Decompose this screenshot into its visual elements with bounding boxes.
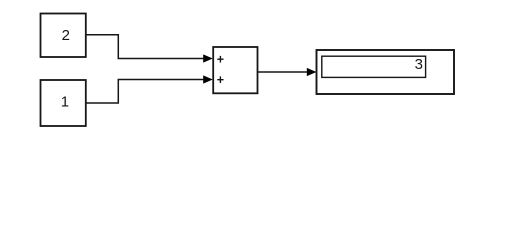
svg-text:+: + [217, 53, 224, 67]
arrowhead A2 at sum input 2 [203, 75, 213, 83]
svg-text:+: + [217, 73, 224, 87]
arrowhead A3 at display input [307, 68, 317, 76]
constant block C1 (value 1) [41, 80, 86, 126]
wire W2 from C1 to sum input 2 [86, 80, 204, 104]
constant block C2 (value 2) [41, 14, 86, 58]
svg-text:3: 3 [415, 56, 423, 73]
arrowhead A1 at sum input 1 [203, 54, 213, 62]
wire W3 from sum output to display [258, 71, 309, 73]
svg-text:2: 2 [62, 27, 70, 44]
svg-text:1: 1 [61, 94, 69, 111]
display block D1 [317, 50, 455, 94]
wire W1 from C2 to sum input 1 [86, 35, 204, 59]
sum block U1 [213, 47, 257, 93]
